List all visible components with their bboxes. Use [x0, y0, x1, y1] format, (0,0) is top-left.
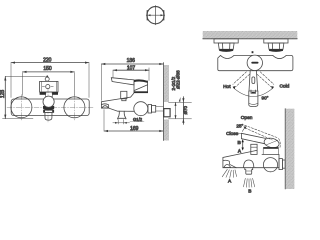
dome (front) [43, 96, 54, 107]
wall union nut [148, 105, 163, 114]
valve body circle (side) [134, 102, 148, 116]
handle tip (front) [45, 75, 49, 81]
svg-text:128: 128 [0, 90, 6, 99]
spray A [222, 169, 236, 177]
body plan [218, 55, 293, 70]
eccentric union square in wall [164, 109, 170, 117]
handle stem plan [249, 70, 258, 106]
dashed swing levers [233, 72, 274, 87]
dimension 128 (vertical) [3, 76, 46, 118]
dimension 107 [113, 68, 149, 81]
svg-text:Ø70: Ø70 [183, 105, 188, 114]
cartridge dome plan [247, 55, 262, 70]
left flange plan [214, 39, 238, 52]
right flange plan [264, 39, 288, 52]
dimension Ø70 (right of wall) [169, 97, 192, 125]
front body bar [11, 99, 89, 116]
svg-text:Ø22-Ø38: Ø22-Ø38 [176, 70, 181, 89]
wall (middle view) [163, 63, 169, 141]
ceiling wall strip [203, 31, 298, 39]
side view lever [111, 78, 147, 92]
dimension 150 [23, 71, 75, 96]
25 degree arc + arrow [242, 126, 246, 131]
svg-text:Close: Close [226, 131, 239, 137]
wall (bottom right) [285, 109, 294, 189]
svg-text:Open: Open [241, 115, 253, 121]
svg-text:Cold: Cold [279, 84, 289, 90]
cartridge housing (front) [40, 81, 58, 96]
svg-text:169: 169 [130, 126, 139, 132]
shower outlet (side) [118, 111, 126, 119]
spout hub crescent (front) [43, 106, 54, 110]
left escutcheon circle [11, 97, 32, 118]
open position dashed lever [245, 125, 281, 147]
set screw cover (side) [121, 91, 127, 100]
svg-text:220: 220 [43, 58, 52, 64]
G1/2 small dimension [113, 120, 130, 125]
svg-text:B: B [248, 189, 251, 195]
dimension 220 [11, 62, 89, 98]
dimension 186 [101, 63, 163, 101]
right escutcheon circle [64, 97, 85, 118]
retainer ring (front) [44, 110, 54, 112]
dimension 169 [104, 110, 163, 133]
svg-text:186: 186 [127, 58, 136, 64]
shower outlet (bottom diagram) [244, 160, 254, 174]
svg-text:90°: 90° [262, 96, 269, 101]
spout (side) [101, 93, 133, 111]
svg-text:150: 150 [43, 66, 52, 72]
centerlines front view [7, 88, 93, 122]
set screw (bottom diagram) [251, 144, 279, 154]
cartridge top mark behind body [252, 51, 254, 53]
body (bottom diagram) [223, 150, 279, 167]
svg-text:Hot: Hot [223, 84, 231, 90]
valve circle (bottom diagram) [263, 158, 277, 172]
spray B [244, 178, 255, 187]
closed lever solid [238, 133, 280, 149]
wall connector (bottom diagram) [279, 159, 285, 170]
cartridge collar (side) [134, 91, 148, 93]
aerator (front) [45, 112, 52, 120]
90 degree swing arc [233, 86, 274, 97]
top symbol: handle cap plan icon [146, 6, 164, 25]
cartridge collar (bottom diagram) [263, 147, 278, 149]
svg-text:107: 107 [127, 65, 136, 71]
svg-text:G1/2: G1/2 [133, 117, 143, 122]
svg-text:25°: 25° [236, 124, 243, 129]
